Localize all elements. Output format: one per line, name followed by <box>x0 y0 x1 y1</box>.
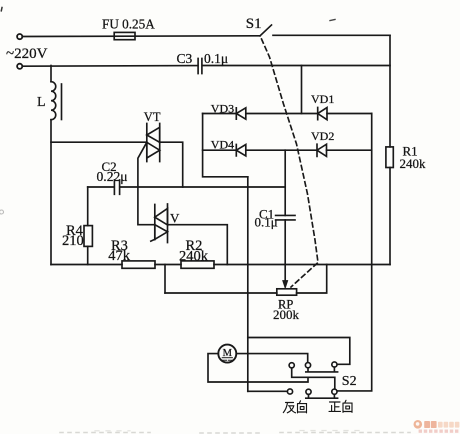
resistor R2 <box>181 261 214 268</box>
S2 contact bottom-mid <box>306 389 311 394</box>
wire contact1 link <box>292 368 335 389</box>
svg-text:240k: 240k <box>400 156 427 171</box>
triac VT <box>147 124 160 162</box>
svg-text:47k: 47k <box>108 248 131 264</box>
svg-text:VD1: VD1 <box>311 92 334 106</box>
label zheng-xiang (forward) <box>329 400 352 412</box>
scan speck top-left corner <box>0 8 3 11</box>
svg-text:0.22μ: 0.22μ <box>97 169 128 184</box>
node VD branch top <box>301 66 303 114</box>
svg-text:240k: 240k <box>179 249 209 265</box>
svg-text:V: V <box>170 211 180 226</box>
wire VD34 left branch <box>203 114 248 177</box>
svg-text:VD2: VD2 <box>311 129 334 143</box>
wire C3 to right corner <box>202 65 390 67</box>
svg-text:L: L <box>37 95 46 110</box>
capacitor C1 <box>276 215 295 220</box>
S2 contact top-right <box>332 362 337 367</box>
terminal top-left <box>17 34 22 39</box>
label fan-xiang (reverse) <box>283 401 306 413</box>
svg-text:210: 210 <box>62 233 84 249</box>
S2 contact top-mid <box>305 363 310 368</box>
RP wiper arrow <box>283 281 288 288</box>
wire right rail lower <box>389 168 391 265</box>
wire RP left rail <box>165 292 277 294</box>
svg-text:C3: C3 <box>177 51 193 66</box>
svg-text:VT: VT <box>144 110 161 124</box>
wire VD4 row <box>203 149 372 151</box>
motor M <box>218 345 236 363</box>
scan speck tick <box>330 20 335 21</box>
S2 contact top-left <box>289 363 294 368</box>
dashed link S1-RP <box>262 39 319 287</box>
watermark logo <box>414 420 460 433</box>
wire C2 left leg <box>87 187 89 226</box>
wire R4 bottom <box>87 246 89 264</box>
resistor R1 <box>386 147 393 168</box>
motor left wire <box>208 354 308 382</box>
S2 bottom bar <box>306 394 338 398</box>
capacitor C3 <box>198 59 202 74</box>
capacitor C2 <box>114 180 119 194</box>
VT gate wire <box>138 142 155 224</box>
inductor core line <box>61 84 63 120</box>
wire 220V line <box>22 65 198 68</box>
wire RP right <box>297 265 327 294</box>
svg-text:~220V: ~220V <box>6 46 48 62</box>
diac V <box>151 204 168 243</box>
svg-text:VD3: VD3 <box>211 102 234 116</box>
fuse FU <box>114 32 135 39</box>
wire R3R2 junction leg <box>164 265 166 294</box>
wire mid rail x248 <box>247 177 249 391</box>
wire VT left <box>51 141 147 143</box>
terminal bottom-left <box>17 64 22 69</box>
svg-text:VD4: VD4 <box>211 138 234 152</box>
svg-text:200k: 200k <box>273 307 300 322</box>
switch S1 lever <box>260 25 272 36</box>
S2 contact bottom-left <box>287 389 292 394</box>
wire VD3 row <box>203 113 372 115</box>
wire V right <box>168 225 228 265</box>
wire C1 wiper leg <box>284 220 286 281</box>
wire L rail down <box>50 120 52 265</box>
scan speck left edge <box>0 210 4 214</box>
wire top line right <box>273 34 390 36</box>
svg-text:FU 0.25A: FU 0.25A <box>102 17 155 32</box>
diode VD3 <box>236 108 246 119</box>
svg-text:M: M <box>223 348 233 359</box>
svg-text:S2: S2 <box>342 374 357 389</box>
resistor R4 <box>84 226 92 247</box>
wire trigger line <box>88 186 286 188</box>
S2 contact bottom-right <box>332 389 337 394</box>
wire right rail upper <box>389 36 391 147</box>
resistor R3 <box>122 261 155 268</box>
potentiometer RP <box>277 289 297 295</box>
wire right rail x372 <box>337 114 372 391</box>
inductor L <box>50 66 52 82</box>
motor right wire <box>236 354 307 363</box>
svg-text:S1: S1 <box>246 16 262 32</box>
wire S2 feed rail <box>248 338 350 365</box>
svg-text:0.1μ: 0.1μ <box>255 214 278 229</box>
diode VD2 <box>317 144 327 156</box>
diode VD4 <box>236 145 246 156</box>
motor M inner symbol <box>222 358 233 361</box>
wire VT right <box>160 142 183 187</box>
wire C1 top leg <box>284 150 286 215</box>
scan noise bottom edge <box>60 432 410 434</box>
svg-text:0.1μ: 0.1μ <box>204 51 228 66</box>
wire S2 bottom-left <box>248 390 287 392</box>
diode VD1 <box>318 108 327 120</box>
wire bottom rail <box>51 264 390 266</box>
wire top line left <box>22 35 260 38</box>
S2 top bar <box>306 367 338 372</box>
